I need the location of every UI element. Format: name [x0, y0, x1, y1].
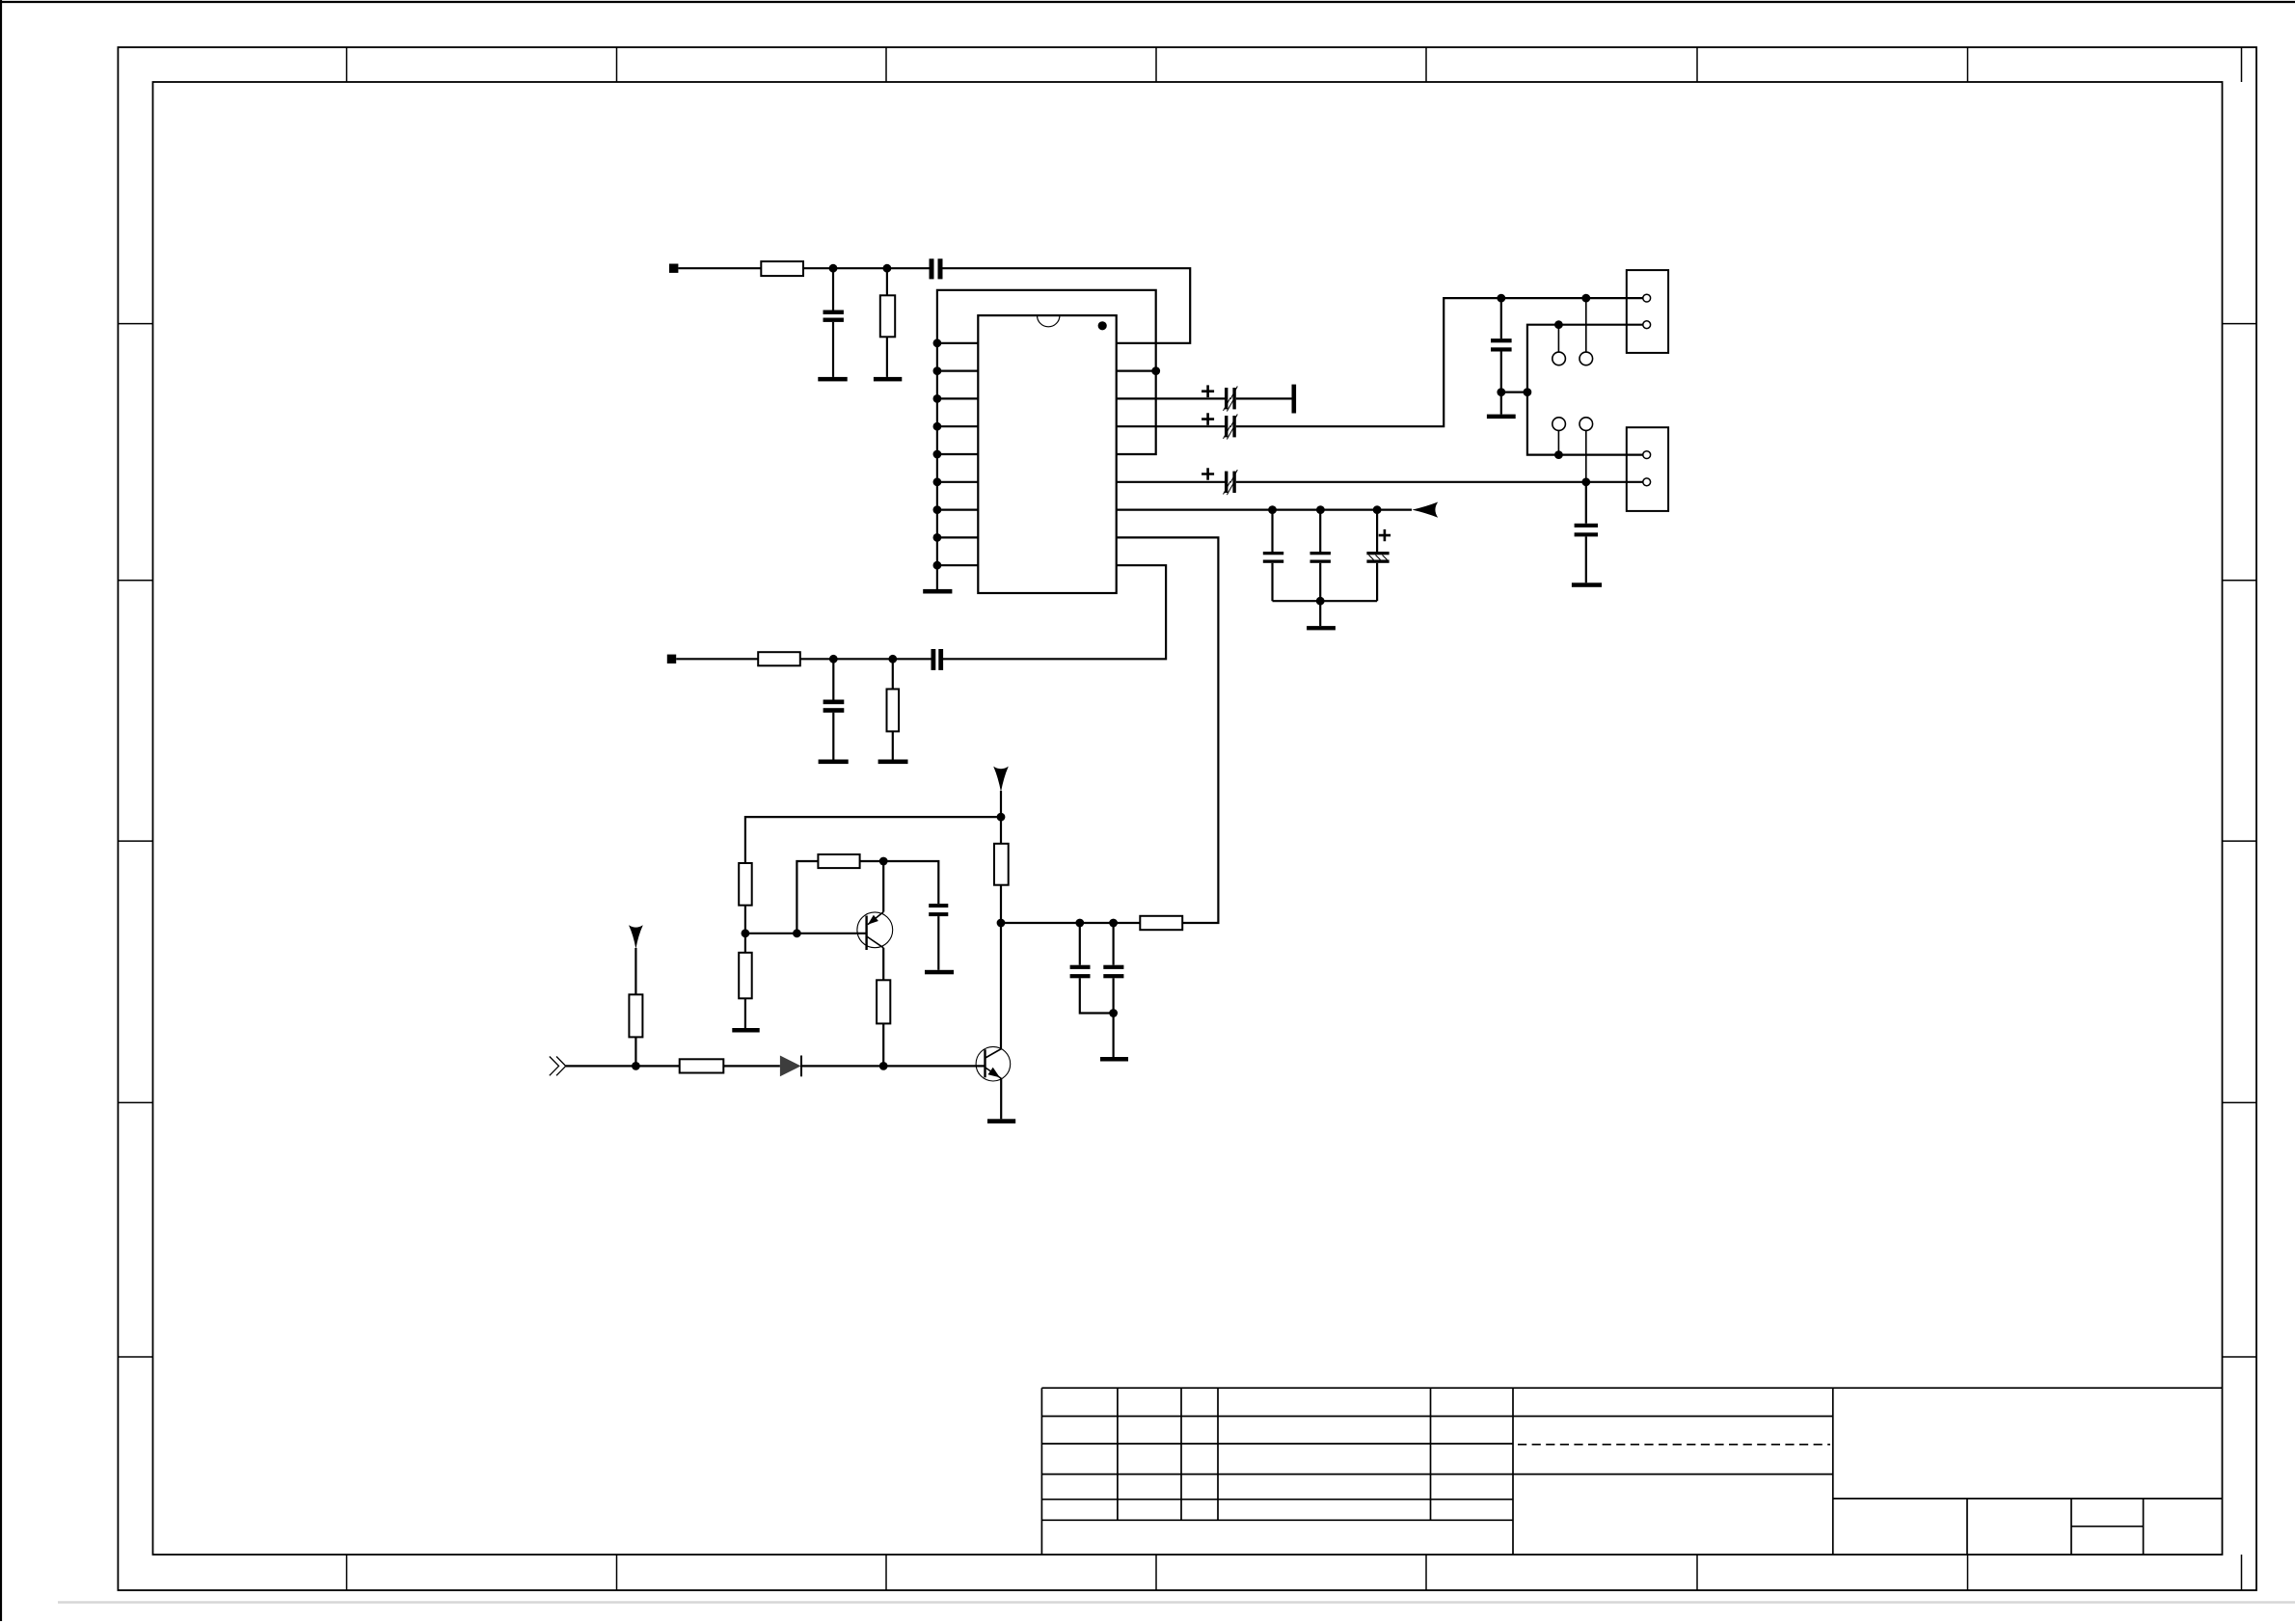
input chevron — [550, 1057, 566, 1076]
wire — [1236, 298, 1627, 426]
node — [742, 929, 750, 937]
node — [793, 929, 801, 937]
node dot — [1497, 388, 1505, 396]
node dot — [1554, 450, 1563, 459]
resistor R10 — [1140, 916, 1182, 930]
wire — [1319, 601, 1321, 626]
wire — [943, 268, 1191, 343]
node — [997, 919, 1006, 928]
connector J2 — [1627, 427, 1668, 511]
capacitor C5 — [1201, 468, 1237, 495]
resistor R11 — [629, 948, 642, 1066]
ground — [923, 589, 952, 594]
capacitor C8 — [1366, 510, 1390, 602]
resistor R12 — [680, 1059, 724, 1072]
capacitor C4 — [1201, 413, 1237, 439]
wire — [1000, 791, 1002, 844]
ground — [925, 970, 954, 975]
node dot — [1524, 388, 1532, 396]
wire supply vertical — [1000, 885, 1002, 1050]
supply arrow VCC2 — [993, 767, 1009, 793]
node — [1109, 1009, 1118, 1017]
ground — [818, 377, 847, 382]
transistor Q1 — [857, 861, 893, 980]
ground — [1307, 626, 1336, 630]
node — [1373, 505, 1382, 514]
pin stubs U1 left — [937, 343, 978, 565]
node — [997, 813, 1006, 822]
wire — [882, 1023, 884, 1066]
ground — [1572, 582, 1602, 587]
wire — [1273, 600, 1378, 602]
ground — [819, 760, 849, 765]
wire — [1236, 397, 1292, 399]
ground — [732, 1028, 759, 1033]
wire pin4 — [1117, 425, 1225, 427]
wire — [723, 1065, 780, 1067]
wire — [801, 1065, 985, 1067]
node — [1075, 919, 1084, 928]
bus junction dots — [933, 338, 942, 569]
diode D1 — [780, 1056, 801, 1077]
wire — [678, 267, 761, 269]
capacitor C14 — [1070, 923, 1114, 1014]
node — [1316, 597, 1325, 606]
capacitor C15 — [1103, 923, 1123, 1057]
node — [879, 857, 888, 866]
port P2 — [667, 655, 676, 663]
wire — [1501, 392, 1527, 393]
ground — [878, 760, 908, 765]
node A1 — [829, 264, 838, 273]
wire — [800, 658, 931, 660]
node B2 — [888, 655, 897, 663]
capacitor C2 — [930, 258, 943, 279]
wire — [744, 906, 746, 934]
resistor R7 — [739, 934, 752, 1028]
port P1 — [669, 264, 678, 273]
resistor R9 — [877, 980, 890, 1023]
resistor R3 — [758, 652, 800, 665]
node — [632, 1062, 640, 1070]
wire — [803, 267, 930, 269]
TITLE BLOCK — [1041, 1388, 2222, 1555]
wire — [745, 817, 1001, 863]
wire — [1236, 481, 1627, 483]
ground — [1487, 415, 1516, 420]
node B1 — [829, 655, 838, 663]
IC U1 — [978, 315, 1116, 593]
wire bottom rail — [566, 1065, 680, 1067]
capacitor C12 — [931, 649, 944, 670]
wire — [1117, 370, 1156, 372]
node dot — [1497, 294, 1505, 303]
wire pin8 — [1117, 537, 1219, 923]
resistor R1 — [761, 261, 803, 276]
ground — [1100, 1057, 1128, 1062]
wire bias row — [1001, 922, 1140, 924]
node dot — [1554, 320, 1563, 329]
node A2 — [883, 264, 892, 273]
node — [1109, 919, 1118, 928]
capacitor C3 — [1201, 385, 1237, 411]
link circles W2 — [1552, 418, 1593, 482]
capacitor C9 — [1491, 298, 1512, 415]
wire pin7 supply rail — [1117, 508, 1412, 510]
transistor Q2 — [976, 1046, 1011, 1119]
link circles W1 — [1552, 298, 1593, 365]
capacitor C10 — [1575, 482, 1598, 583]
resistor R6 — [739, 863, 752, 906]
wire pin9 — [942, 565, 1167, 659]
wire pin6 — [1117, 481, 1225, 483]
wire base — [745, 933, 867, 934]
resistor R5 — [994, 844, 1009, 885]
connector J1 — [1627, 270, 1668, 353]
wire — [1527, 325, 1627, 392]
node dot — [1581, 294, 1590, 303]
node on bus-return — [1151, 366, 1160, 375]
terminal bar TP1 — [1292, 385, 1297, 414]
capacitor C1 — [823, 268, 844, 377]
capacitor C6 — [1263, 510, 1283, 602]
resistor R8 feedback — [796, 854, 883, 934]
node — [1316, 505, 1325, 514]
power arrow VCC — [1412, 502, 1438, 518]
wire — [883, 861, 938, 904]
supply arrow VCC3 — [629, 925, 643, 949]
capacitor C7 — [1310, 510, 1331, 602]
node — [879, 1062, 888, 1070]
capacitor C13 — [929, 904, 948, 970]
wire pin3 — [1117, 397, 1225, 399]
ground bus wire — [937, 290, 1156, 589]
ground — [987, 1119, 1015, 1123]
node dot — [1581, 477, 1590, 486]
resistor R4 — [887, 659, 900, 759]
wire — [1527, 392, 1627, 455]
wire — [676, 658, 758, 660]
resistor R2 — [880, 268, 895, 377]
node — [1268, 505, 1277, 514]
capacitor C11 — [823, 659, 845, 759]
ground — [874, 377, 902, 382]
